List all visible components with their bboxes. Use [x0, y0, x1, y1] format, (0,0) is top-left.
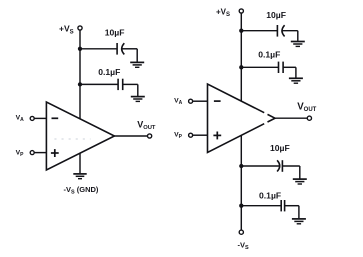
- svg-text:-VS (GND): -VS (GND): [64, 185, 99, 195]
- svg-text:0.1µF: 0.1µF: [259, 191, 281, 201]
- svg-text:VP: VP: [16, 150, 25, 159]
- svg-text:VOUT: VOUT: [297, 101, 316, 113]
- svg-text:VA: VA: [16, 115, 25, 124]
- svg-text:10µF: 10µF: [105, 28, 125, 38]
- svg-text:10µF: 10µF: [270, 143, 290, 153]
- svg-text:-VS: -VS: [238, 241, 250, 251]
- svg-text:+VS: +VS: [216, 7, 230, 18]
- svg-text:0.1µF: 0.1µF: [98, 67, 120, 77]
- svg-text:VOUT: VOUT: [137, 120, 156, 131]
- svg-text:VA: VA: [174, 98, 183, 107]
- svg-text:VP: VP: [174, 132, 183, 141]
- svg-text:0.1µF: 0.1µF: [258, 50, 280, 60]
- svg-text:+VS: +VS: [59, 24, 74, 36]
- svg-text:10µF: 10µF: [266, 10, 286, 20]
